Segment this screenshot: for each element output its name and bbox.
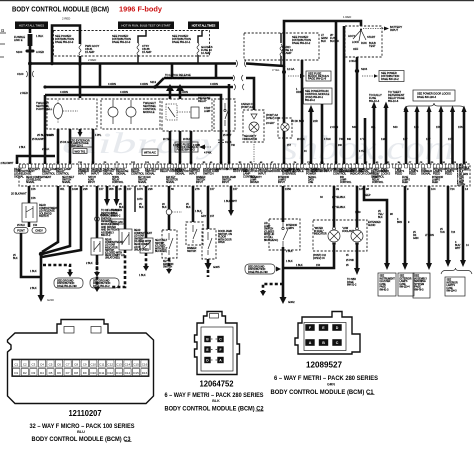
wire center ground main [283,186,293,297]
svg-text:SYSTEM: SYSTEM [415,284,425,286]
svg-text:INPUT: INPUT [222,182,230,184]
dashed branch from ground wire [260,284,283,296]
svg-text:2 BLK/WHT: 2 BLK/WHT [1,162,14,165]
svg-text:G200: G200 [47,298,54,302]
svg-text:4 PPL: 4 PPL [95,135,102,137]
svg-text:C12: C12 [108,362,114,366]
cargo lamp dashed box [241,103,264,142]
svg-text:C9: C9 [83,362,87,366]
svg-text:CONTROL: CONTROL [56,172,70,176]
svg-text:157: 157 [426,137,431,141]
left edge marks [0,33,6,57]
svg-text:BLOCK: BLOCK [330,39,339,43]
svg-text:8W-78-3: 8W-78-3 [415,290,425,292]
svg-text:2 BLK: 2 BLK [42,147,50,151]
svg-text:C5: C5 [49,362,53,366]
wire break marks [236,60,246,67]
svg-text:33: 33 [336,187,339,191]
svg-text:1059: 1059 [355,211,361,214]
indicator lamp 2 [351,227,363,245]
svg-text:8W-10-6: 8W-10-6 [388,99,399,103]
wire ajar switch [95,186,109,238]
svg-text:9: 9 [407,187,409,191]
svg-text:C2: C2 [23,362,27,366]
svg-text:C8: C8 [74,362,78,366]
junction dots [28,62,32,66]
svg-text:PHOTOCELL: PHOTOCELL [36,107,53,111]
wire cb drops [138,55,281,66]
svg-text:PAGE 8W-10-2: PAGE 8W-10-2 [292,41,311,45]
svg-text:156: 156 [458,125,463,129]
svg-text:INPUT: INPUT [88,182,96,184]
circuit breaker CTSY CB #8 [137,43,152,55]
svg-text:INTERIOR: INTERIOR [286,225,297,227]
dashed box power distribution left [54,31,210,57]
svg-text:GRN: GRN [327,383,335,387]
svg-text:32 – WAY F MICRO – PACK 100 SE: 32 – WAY F MICRO – PACK 100 SERIES [30,423,135,430]
svg-text:TAN: TAN [440,231,445,234]
svg-text:(CLOSES: (CLOSES [264,231,275,233]
connector C2 pins [204,336,210,342]
svg-text:20 YEL: 20 YEL [163,139,171,141]
wire junction to ground [40,252,43,295]
wire vertical x388 [385,108,388,164]
svg-text:REQUEST: REQUEST [339,169,352,173]
box see instrument cluster [378,273,396,296]
pill see ground distribution 3 [245,264,281,274]
svg-text:(PONT) C12: (PONT) C12 [313,255,327,257]
wire cargo feed [246,78,254,110]
BCM module dashed strip [19,164,470,186]
svg-text:2 RED: 2 RED [62,17,70,21]
dashed arrow to pill 2 [94,262,100,277]
svg-text:C3: C3 [228,162,231,164]
rear compartment lid release solenoid box [22,203,58,222]
svg-text:RUN: RUN [361,41,367,45]
svg-text:C15: C15 [133,362,139,366]
svg-text:1996 F-body: 1996 F-body [119,5,163,14]
svg-text:341: 341 [371,125,376,129]
svg-text:A RED: A RED [36,50,44,54]
svg-text:SWITCH: SWITCH [187,251,197,253]
svg-text:LT GRN: LT GRN [425,234,434,237]
wire riser x172 [171,64,174,78]
BCM pin sockets [20,164,466,168]
svg-text:C2: C2 [1,30,5,33]
svg-text:157: 157 [210,187,215,191]
wire vertical x344 [343,26,346,164]
fusible link E [14,29,44,62]
svg-text:D: D [336,326,339,330]
twilight control dashed box [101,99,160,129]
svg-text:INTERIOR: INTERIOR [447,282,458,284]
connector C204 [218,140,232,144]
wire vertical x377 [373,108,376,164]
svg-text:D6: D6 [57,371,61,375]
svg-text:156: 156 [31,196,36,200]
wire ajar switch 2 [119,186,125,229]
BCM lower band labels [26,176,443,184]
hatch release switch dashed box [204,99,235,131]
svg-text:AJAR: AJAR [88,178,94,181]
svg-text:DOOR JAMB: DOOR JAMB [218,230,232,233]
svg-text:D2: D2 [23,371,27,375]
svg-text:COMPARTMENT: COMPARTMENT [134,232,153,235]
circuit breaker PWR ACCY CB #1 [79,43,100,55]
svg-text:REAR COMPARTMENT: REAR COMPARTMENT [26,176,52,179]
svg-text:23 GRY: 23 GRY [266,122,275,125]
fuse radio [280,44,282,56]
wire vertical x441 [440,112,443,164]
svg-text:D14: D14 [125,371,131,375]
svg-text:START: START [367,35,376,39]
wire ignition branch [228,84,231,164]
svg-text:C4: C4 [40,362,44,366]
splice S100 [16,50,44,55]
svg-text:4 ORN: 4 ORN [140,82,148,86]
svg-text:SWITCH: SWITCH [134,238,144,240]
pill CHEV [32,228,46,234]
svg-text:FEED: FEED [409,172,416,176]
svg-text:D5: D5 [49,371,53,375]
svg-text:BLK: BLK [378,216,383,219]
wires converging to ground junction [42,186,58,252]
svg-text:BLK: BLK [13,257,18,260]
svg-text:8W-47-2: 8W-47-2 [101,234,111,237]
svg-text:WITH UA6: WITH UA6 [111,221,123,224]
svg-text:8W-31-2: 8W-31-2 [347,284,357,287]
connector C1 pins [305,324,314,331]
svg-text:C13: C13 [116,362,122,366]
svg-text:LINK E: LINK E [14,38,23,42]
label TO RALLY FUSE [369,93,382,103]
wire 1 RED top bus [284,15,361,67]
svg-text:LAMPS: LAMPS [286,227,294,230]
svg-text:20 BLK: 20 BLK [183,139,191,141]
svg-text:G305: G305 [213,265,220,269]
svg-text:CONTROL: CONTROL [131,172,145,176]
wire b2 feed stub [138,30,146,43]
svg-text:BODY CONTROL MODULE (BCM) C3: BODY CONTROL MODULE (BCM) C3 [32,436,131,443]
svg-text:C14: C14 [125,362,131,366]
svg-text:D7: D7 [66,371,70,375]
svg-text:PAGE 8W-14-7&8: PAGE 8W-14-7&8 [57,285,77,288]
ground below jamb [205,259,221,277]
svg-text:SEAT BELT: SEAT BELT [155,239,168,242]
svg-text:UNLATCHED): UNLATCHED) [105,257,120,260]
svg-text:SIGNAL: SIGNAL [166,181,175,184]
svg-text:BLK: BLK [162,206,167,209]
svg-text:SEE POWER DOOR LOCKS: SEE POWER DOOR LOCKS [417,92,451,96]
svg-text:INPUT: INPUT [196,182,204,184]
svg-text:1 BLK/WHT: 1 BLK/WHT [224,200,237,203]
svg-text:12064752: 12064752 [200,379,234,389]
svg-text:8W-110-2: 8W-110-2 [72,144,84,148]
see fuse block details box left [175,142,212,155]
svg-text:25 DK GRN: 25 DK GRN [60,142,73,144]
svg-text:724: 724 [451,231,456,234]
svg-text:C: C [336,341,339,345]
svg-text:INPUT: INPUT [324,169,332,173]
svg-text:20 BLK/WHT: 20 BLK/WHT [11,192,27,196]
battery input arrow [363,25,402,32]
label TO THEFT DETERRENT [388,90,405,103]
wire arrow interior lights 2 [455,186,469,267]
svg-text:DIMMER: DIMMER [187,248,197,250]
extended audio label [368,222,381,227]
svg-text:LOCKS: LOCKS [381,172,390,176]
rear compt lid ajar switch box [91,238,125,260]
interior lamps door switch dashed box [264,219,300,250]
svg-text:BLK: BLK [212,399,220,403]
wire pcm second [321,104,324,164]
svg-text:C100: C100 [17,72,24,76]
wire seat belt dn [139,253,149,277]
svg-text:SEE: SEE [400,276,405,278]
svg-text:INPUT: INPUT [390,28,398,32]
svg-text:SWITCH: SWITCH [163,267,173,269]
wire left corner into strip [17,156,55,164]
svg-text:FEED: FEED [445,172,452,176]
svg-text:CHEV: CHEV [35,229,43,233]
svg-text:4 ORN: 4 ORN [210,82,218,86]
svg-text:FUSE: FUSE [400,284,407,286]
svg-text:A: A [309,341,312,345]
ground G200 [38,295,55,302]
svg-text:20 DK BLU: 20 DK BLU [291,119,304,123]
wire break marks bus2 [233,75,244,90]
svg-text:8W-110-4: 8W-110-4 [400,287,411,289]
svg-text:DRIVER: DRIVER [250,182,259,184]
svg-text:"LOW: "LOW [342,228,349,230]
svg-text:2 BLK: 2 BLK [19,147,26,149]
svg-text:C10: C10 [90,362,96,366]
brace under door locks [404,103,465,110]
wire color labels above strip [19,135,366,153]
ignition switch dashed box [345,26,382,57]
dashed box power distribution radio [244,33,319,60]
splice S218 [282,67,295,74]
svg-text:4 TAN: 4 TAN [324,138,331,141]
svg-text:ACCY PWR: ACCY PWR [233,169,247,173]
box see exterior lamps fuse [398,273,414,296]
wire to lid release relay [11,186,36,203]
svg-text:OFF: OFF [353,47,359,51]
svg-text:14: 14 [466,244,469,247]
svg-text:AT FULL: AT FULL [264,236,274,239]
svg-text:2 RED: 2 RED [20,91,28,95]
svg-text:WARNING: WARNING [415,280,426,283]
svg-text:BLK: BLK [186,206,191,209]
svg-text:1 ORN: 1 ORN [173,145,180,147]
svg-text:1550: 1550 [285,187,291,191]
svg-text:PAGE 8W-10-1: PAGE 8W-10-1 [172,40,191,44]
svg-text:156: 156 [436,125,441,129]
svg-text:SEAT BELT: SEAT BELT [62,176,75,179]
wire riser x100 [99,64,102,87]
svg-text:25 YEL/BLK: 25 YEL/BLK [332,196,346,199]
wire riser x216 [215,64,218,78]
wire from pills down [13,233,41,277]
svg-text:SWITCH, ON: SWITCH, ON [218,234,232,236]
svg-text:4 ORN: 4 ORN [108,82,116,86]
svg-text:20 BLK: 20 BLK [297,139,305,141]
svg-text:AUDIO: AUDIO [368,224,376,227]
svg-text:GRN: GRN [413,237,419,240]
svg-text:BLK: BLK [119,206,124,209]
svg-text:C16: C16 [142,362,148,366]
svg-text:RELAY: RELAY [372,178,380,181]
svg-text:BLU: BLU [77,430,85,434]
splice S204 [355,67,368,73]
svg-text:ORN: ORN [296,90,302,94]
svg-text:C14: C14 [463,162,468,164]
svg-text:FEED: FEED [395,172,402,176]
svg-text:14: 14 [465,187,468,191]
svg-text:D11: D11 [99,371,105,375]
svg-text:A9: A9 [210,161,213,164]
svg-text:6 – WAY F METRI – PACK 280 SER: 6 – WAY F METRI – PACK 280 SERIES [274,375,379,382]
arrow up into PCM [291,87,318,164]
svg-text:2 BLK: 2 BLK [86,262,93,265]
wires to indicator lamps [320,186,361,227]
svg-text:OVERRIDE: OVERRIDE [282,172,296,176]
wire key switch dn [166,258,172,274]
svg-text:D1: D1 [14,371,18,375]
svg-text:EXTENDED: EXTENDED [368,222,381,224]
svg-text:C6: C6 [57,362,61,366]
see power distribution box right [362,71,404,82]
svg-text:358: 358 [109,187,114,191]
svg-text:W/O T61: W/O T61 [75,149,86,153]
wire vertical x464 [463,112,466,164]
svg-text:SERIAL: SERIAL [308,176,317,179]
svg-text:2 ORN: 2 ORN [47,135,54,137]
svg-text:12 GA: 12 GA [287,67,295,71]
svg-text:FEED: FEED [402,182,409,184]
svg-text:157: 157 [448,137,453,141]
svg-text:(CHEV) C6: (CHEV) C6 [313,258,325,260]
svg-text:LID RELEASE: LID RELEASE [26,178,41,181]
svg-text:SIGNAL: SIGNAL [62,181,71,184]
svg-text:150: 150 [316,264,321,267]
svg-text:B7: B7 [179,162,182,164]
svg-text:LAMPS: LAMPS [400,280,408,283]
svg-text:D2: D2 [92,162,95,164]
power label box HOT IN RUN BULB TEST OR START [118,22,174,30]
wire arrow exterior lamps fuse [397,186,410,270]
svg-text:1070: 1070 [137,187,143,191]
brace over interior lights [441,268,472,274]
connector C3 32-way outline [8,320,154,404]
svg-text:PAGE 8W-10-3: PAGE 8W-10-3 [112,40,131,44]
wire arrow assembly warning [413,186,434,270]
door jamb switch dashed box [202,229,232,259]
svg-text:LAMP: LAMP [204,110,211,113]
svg-text:3 ORN: 3 ORN [193,145,200,147]
labels PONT CHEV right of indicator [266,114,280,125]
svg-text:25 WHT: 25 WHT [223,135,232,137]
svg-text:INSTRUMENT: INSTRUMENT [380,278,396,280]
svg-text:LID: LID [264,223,268,225]
svg-text:98: 98 [390,213,393,216]
svg-text:SIGNAL: SIGNAL [359,169,369,173]
svg-text:C4: C4 [220,162,223,164]
svg-text:FEED: FEED [432,182,439,184]
wire stub x135 [135,186,143,212]
svg-text:8W-81-3: 8W-81-3 [380,290,390,292]
svg-text:IN FUEL": IN FUEL" [314,231,324,233]
wire security indicator to BCM [253,132,255,164]
wire seat belt [139,186,146,238]
twilight photocell dashed box [36,99,97,129]
svg-text:D3: D3 [31,371,35,375]
svg-text:25 BLK/WHT: 25 BLK/WHT [32,139,46,141]
svg-text:LID AJAR: LID AJAR [134,235,144,238]
svg-text:12089527: 12089527 [306,360,342,370]
svg-text:D12: D12 [108,371,114,375]
svg-text:LAMPS: LAMPS [278,178,286,181]
splice junction S207 [78,62,82,66]
svg-text:PAGE 8W-134-2: PAGE 8W-134-2 [165,76,185,80]
svg-text:PAGE: PAGE [380,286,387,289]
svg-text:GROUND: GROUND [296,167,308,171]
svg-text:DATA: DATA [311,169,318,173]
svg-text:REAR: REAR [105,239,112,242]
svg-text:724: 724 [450,187,455,191]
svg-text:33: 33 [320,196,323,199]
svg-text:ASSEMBLY: ASSEMBLY [415,277,428,280]
dimmer switch dashed box [186,222,203,253]
svg-text:SWITCH: SWITCH [264,229,274,231]
power label box HOT AT ALL TIMES (right) [188,22,219,30]
svg-text:28: 28 [119,187,122,191]
svg-text:SWITCH: SWITCH [39,215,49,218]
svg-text:8W-114-3: 8W-114-3 [447,291,458,293]
svg-text:15 AMP: 15 AMP [85,50,95,54]
svg-text:RELAY: RELAY [198,99,207,103]
svg-text:9: 9 [408,221,410,224]
svg-text:PAGE 8W-14-7&8: PAGE 8W-14-7&8 [248,271,268,274]
svg-text:INPUT: INPUT [78,172,86,176]
svg-text:PAGE 8W-10-3: PAGE 8W-10-3 [55,40,74,44]
see powertrain control module box [304,88,333,104]
svg-text:SIGNAL: SIGNAL [421,172,431,176]
svg-text:CONTROL: CONTROL [372,182,384,184]
svg-text:D8: D8 [57,162,60,164]
svg-text:C9: C9 [16,162,19,164]
svg-text:C16: C16 [78,162,83,164]
svg-text:F: F [219,348,221,352]
svg-text:WITH A/C: WITH A/C [144,151,156,155]
svg-text:1 BLK: 1 BLK [36,34,44,38]
svg-text:S213: S213 [150,80,157,84]
svg-text:LOCK: LOCK [352,40,359,44]
svg-text:22R: 22R [313,119,318,123]
svg-text:INDICATOR: INDICATOR [105,246,118,249]
wire battery feed to BCM [29,62,32,164]
svg-text:D15: D15 [133,371,139,375]
svg-text:8W-40-2: 8W-40-2 [111,215,121,218]
page top edge line [0,0,474,1]
wire drop to photocell [79,56,82,98]
svg-text:2 BLK: 2 BLK [286,250,293,253]
svg-text:1 BLK: 1 BLK [139,274,146,277]
svg-text:139: 139 [381,137,386,141]
svg-text:BLK: BLK [139,206,144,209]
svg-text:BATTERY: BATTERY [28,167,40,171]
svg-text:45: 45 [346,255,349,257]
